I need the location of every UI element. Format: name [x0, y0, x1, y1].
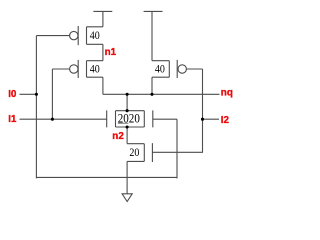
svg-text:40: 40	[155, 63, 165, 75]
wire I1 horizontal	[20, 118, 107, 120]
transistor pair N1 N2	[107, 110, 153, 127]
svg-text:I1: I1	[8, 114, 17, 125]
wire I0 loop bottom	[36, 176, 177, 178]
transistor N3	[127, 143, 152, 162]
underline N1 label	[118, 122, 129, 124]
wire nq tap	[126, 94, 128, 110]
junction I1	[51, 118, 54, 121]
svg-text:n2: n2	[112, 131, 124, 142]
wire I2 stub	[203, 118, 220, 120]
gate wire N3	[152, 151, 202, 153]
vdd supply left	[93, 11, 112, 26]
node n1 wire	[102, 44, 104, 60]
wire I0 vertical	[35, 36, 37, 179]
junction P3 drain	[150, 93, 153, 96]
wire P3 drain	[151, 77, 153, 94]
wire P2 drain	[102, 77, 104, 94]
svg-text:I2: I2	[221, 115, 230, 126]
vdd supply right	[144, 11, 163, 60]
wire nq rail	[103, 93, 220, 95]
svg-text:n1: n1	[105, 47, 117, 58]
svg-text:nq: nq	[221, 87, 233, 98]
node n2 wire	[126, 127, 128, 144]
junction pair bottom	[126, 125, 129, 128]
wire I1 vertical	[51, 69, 53, 119]
transistor P2	[70, 60, 103, 78]
junction I0	[35, 93, 38, 96]
junction pair top	[126, 109, 129, 112]
junction nq tap top	[126, 93, 129, 96]
svg-text:20: 20	[129, 145, 139, 159]
gate wire P3	[186, 68, 202, 70]
gate wire N2 right	[153, 118, 177, 120]
wire I2 vertical	[202, 69, 204, 153]
gate wire P1	[36, 35, 69, 37]
ground	[122, 194, 132, 202]
svg-text:I0: I0	[8, 89, 17, 100]
wire I0 loop vertical	[176, 119, 178, 178]
wire I0 stub	[20, 93, 37, 95]
junction I2	[201, 118, 204, 121]
gate wire P2	[52, 68, 69, 70]
transistor P1	[70, 26, 103, 45]
svg-text:40: 40	[90, 63, 100, 75]
transistor P3	[152, 60, 186, 78]
svg-text:40: 40	[90, 30, 100, 42]
wire ground stem	[126, 161, 128, 194]
